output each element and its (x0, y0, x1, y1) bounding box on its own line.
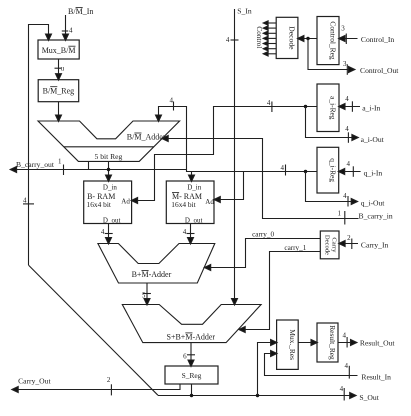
register a_i-Reg (317, 84, 339, 132)
svg-text:4: 4 (347, 160, 351, 168)
wire Result_In to Mux_Res (265, 354, 358, 376)
wire B/M_Adder right input loop from q bus (159, 107, 187, 170)
svg-text:4: 4 (183, 228, 187, 236)
svg-text:5 bit Reg: 5 bit Reg (95, 152, 123, 161)
wire S bus branch to Mux_Res (256, 394, 259, 397)
svg-text:B/M_Adder: B/M_Adder (127, 133, 166, 142)
wire B/M_Reg to B/M_Adder (58, 102, 60, 120)
wire a_i-In (340, 106, 360, 108)
adder S+B+M-Adder (122, 305, 261, 343)
svg-text:16x4 bit: 16x4 bit (87, 200, 112, 209)
svg-text:Result_In: Result_In (361, 372, 391, 381)
wire Control_In (340, 38, 357, 40)
wire branch from 5 bit Reg bottom to bus (88, 161, 90, 169)
register Result_Reg (317, 323, 338, 362)
svg-text:Control: Control (255, 26, 263, 48)
svg-text:q_i-Reg: q_i-Reg (328, 158, 337, 182)
svg-text:4: 4 (345, 95, 349, 103)
svg-text:Control_In: Control_In (361, 35, 395, 44)
svg-text:4: 4 (226, 36, 230, 44)
register q_i-Reg (317, 147, 339, 193)
svg-text:4: 4 (345, 125, 349, 133)
wire a bus from a_i-Reg to B-RAM Ad (133, 107, 317, 201)
wire drop into B-RAM D_in (108, 161, 110, 180)
mux Mux._Res (277, 320, 299, 369)
decoder Carry Decode (320, 231, 339, 259)
svg-text:4: 4 (170, 96, 174, 104)
wire S+B+M-Adder output to S_Reg (190, 343, 192, 365)
svg-text:6: 6 (183, 352, 187, 360)
tick 4 on q bus (285, 165, 287, 176)
wire drop into M-RAM D_in (191, 172, 193, 181)
svg-text:Ad: Ad (205, 198, 214, 206)
svg-text:Control_Reg: Control_Reg (329, 21, 338, 59)
svg-text:Carry_Out: Carry_Out (18, 377, 51, 386)
svg-text:4: 4 (101, 228, 105, 236)
svg-text:B/M_In: B/M_In (68, 7, 93, 16)
wire S bus from S_Reg to S_Out (191, 384, 193, 396)
wire Control_Reg to Decode (299, 38, 317, 40)
svg-text:Mux_B/M: Mux_B/M (42, 46, 76, 55)
svg-text:a_i-Out: a_i-Out (361, 135, 385, 144)
svg-text:1: 1 (58, 158, 62, 166)
wire B_carry_in from right edge to B/M_Adder right slant (164, 139, 359, 219)
wire Mux_Res to Result_Reg (298, 342, 316, 344)
svg-text:D_out: D_out (185, 216, 203, 224)
svg-text:Mux._Res: Mux._Res (288, 329, 297, 360)
svg-text:2: 2 (347, 234, 351, 242)
wire Carry_In (341, 243, 359, 245)
ram M-RAM 16x4 bit (166, 181, 214, 224)
svg-text:3: 3 (343, 60, 347, 68)
register Control_Reg (317, 17, 339, 65)
svg-text:B+M-Adder: B+M-Adder (132, 270, 172, 279)
svg-text:5: 5 (142, 291, 146, 299)
svg-text:3: 3 (341, 24, 345, 32)
wire S_In down to S+B+M-Adder (234, 9, 236, 304)
svg-text:4: 4 (343, 192, 347, 200)
svg-text:4: 4 (342, 332, 346, 340)
svg-text:4: 4 (267, 99, 271, 107)
svg-text:Result_Reg: Result_Reg (328, 325, 337, 360)
wire M-RAM D_out to B+M-Adder (190, 224, 192, 243)
wire a_i-Out branch (304, 105, 307, 108)
wire feedback lower segment with 4 tick down to diagonal (28, 170, 30, 266)
svg-text:carry_0: carry_0 (252, 231, 274, 239)
register B/M_Reg (38, 80, 78, 102)
svg-text:Carry: Carry (330, 237, 337, 253)
svg-text:Carry_In: Carry_In (361, 240, 389, 249)
svg-text:D_in: D_in (187, 183, 202, 191)
wire B_carry_out / q bus main horizontal (12, 170, 317, 172)
wire Result_Out (338, 342, 355, 344)
ram B-RAM 16x4 bit (84, 181, 132, 224)
svg-text:S_Out: S_Out (359, 393, 379, 402)
adder B/M_Adder with 5 bit Reg (38, 121, 180, 161)
wire B-RAM D_out to B+M-Adder (108, 224, 110, 243)
svg-text:carry_1: carry_1 (284, 244, 306, 252)
svg-text:2: 2 (107, 376, 111, 384)
wire Control_Out branch (308, 39, 353, 70)
svg-text:S_In: S_In (237, 7, 252, 16)
svg-text:q_i-Out: q_i-Out (361, 199, 386, 208)
wire branch to M-RAM Ad (216, 172, 244, 200)
mux Mux_B/M (38, 40, 79, 59)
svg-text:16x4 bit: 16x4 bit (171, 200, 196, 209)
wire carry_0 to B+M-Adder right slant (206, 239, 320, 268)
wire feedback from B_carry_out line up to Mux input (29, 25, 49, 170)
wire B/M_In into Mux (65, 15, 67, 39)
svg-text:S+B+M-Adder: S+B+M-Adder (167, 333, 216, 342)
wire Mux to B/M_Reg with u tick (58, 59, 60, 79)
svg-text:B_carry_in: B_carry_in (359, 212, 393, 221)
svg-text:B_carry_out: B_carry_out (16, 160, 55, 169)
register S_Reg (165, 366, 218, 384)
wire q_i-In (340, 171, 361, 173)
svg-text:Ad: Ad (121, 198, 130, 206)
svg-text:4: 4 (69, 27, 73, 35)
svg-text:a_i-In: a_i-In (362, 104, 380, 113)
svg-text:q_i-In: q_i-In (364, 169, 383, 178)
wire diagonal feedback to S bus (29, 265, 159, 395)
svg-text:u: u (61, 65, 65, 73)
decoder Decode (276, 17, 298, 58)
svg-text:4: 4 (281, 164, 285, 172)
svg-text:Decode: Decode (323, 235, 330, 255)
wire B+M-Adder output (146, 283, 148, 304)
svg-text:B/M_Reg: B/M_Reg (43, 86, 75, 95)
svg-text:D_out: D_out (103, 216, 121, 224)
svg-text:D_in: D_in (103, 183, 118, 191)
wire Carry_Out from S_Reg (13, 384, 180, 390)
control output arrows fan (263, 21, 276, 56)
svg-text:4: 4 (340, 385, 344, 393)
svg-text:S_Reg: S_Reg (182, 371, 202, 380)
wire carry_1 to S+B+M-Adder right slant (241, 252, 321, 330)
svg-text:4: 4 (23, 197, 27, 205)
svg-text:4: 4 (344, 362, 348, 370)
svg-text:Result_Out: Result_Out (360, 339, 395, 348)
svg-text:Control_Out: Control_Out (360, 66, 399, 75)
svg-text:1: 1 (337, 210, 341, 218)
wire q_i-Out branch (304, 170, 307, 173)
svg-text:Decode: Decode (288, 26, 297, 50)
svg-text:a_i-Reg: a_i-Reg (329, 96, 338, 120)
adder B+M-Adder (98, 244, 215, 284)
